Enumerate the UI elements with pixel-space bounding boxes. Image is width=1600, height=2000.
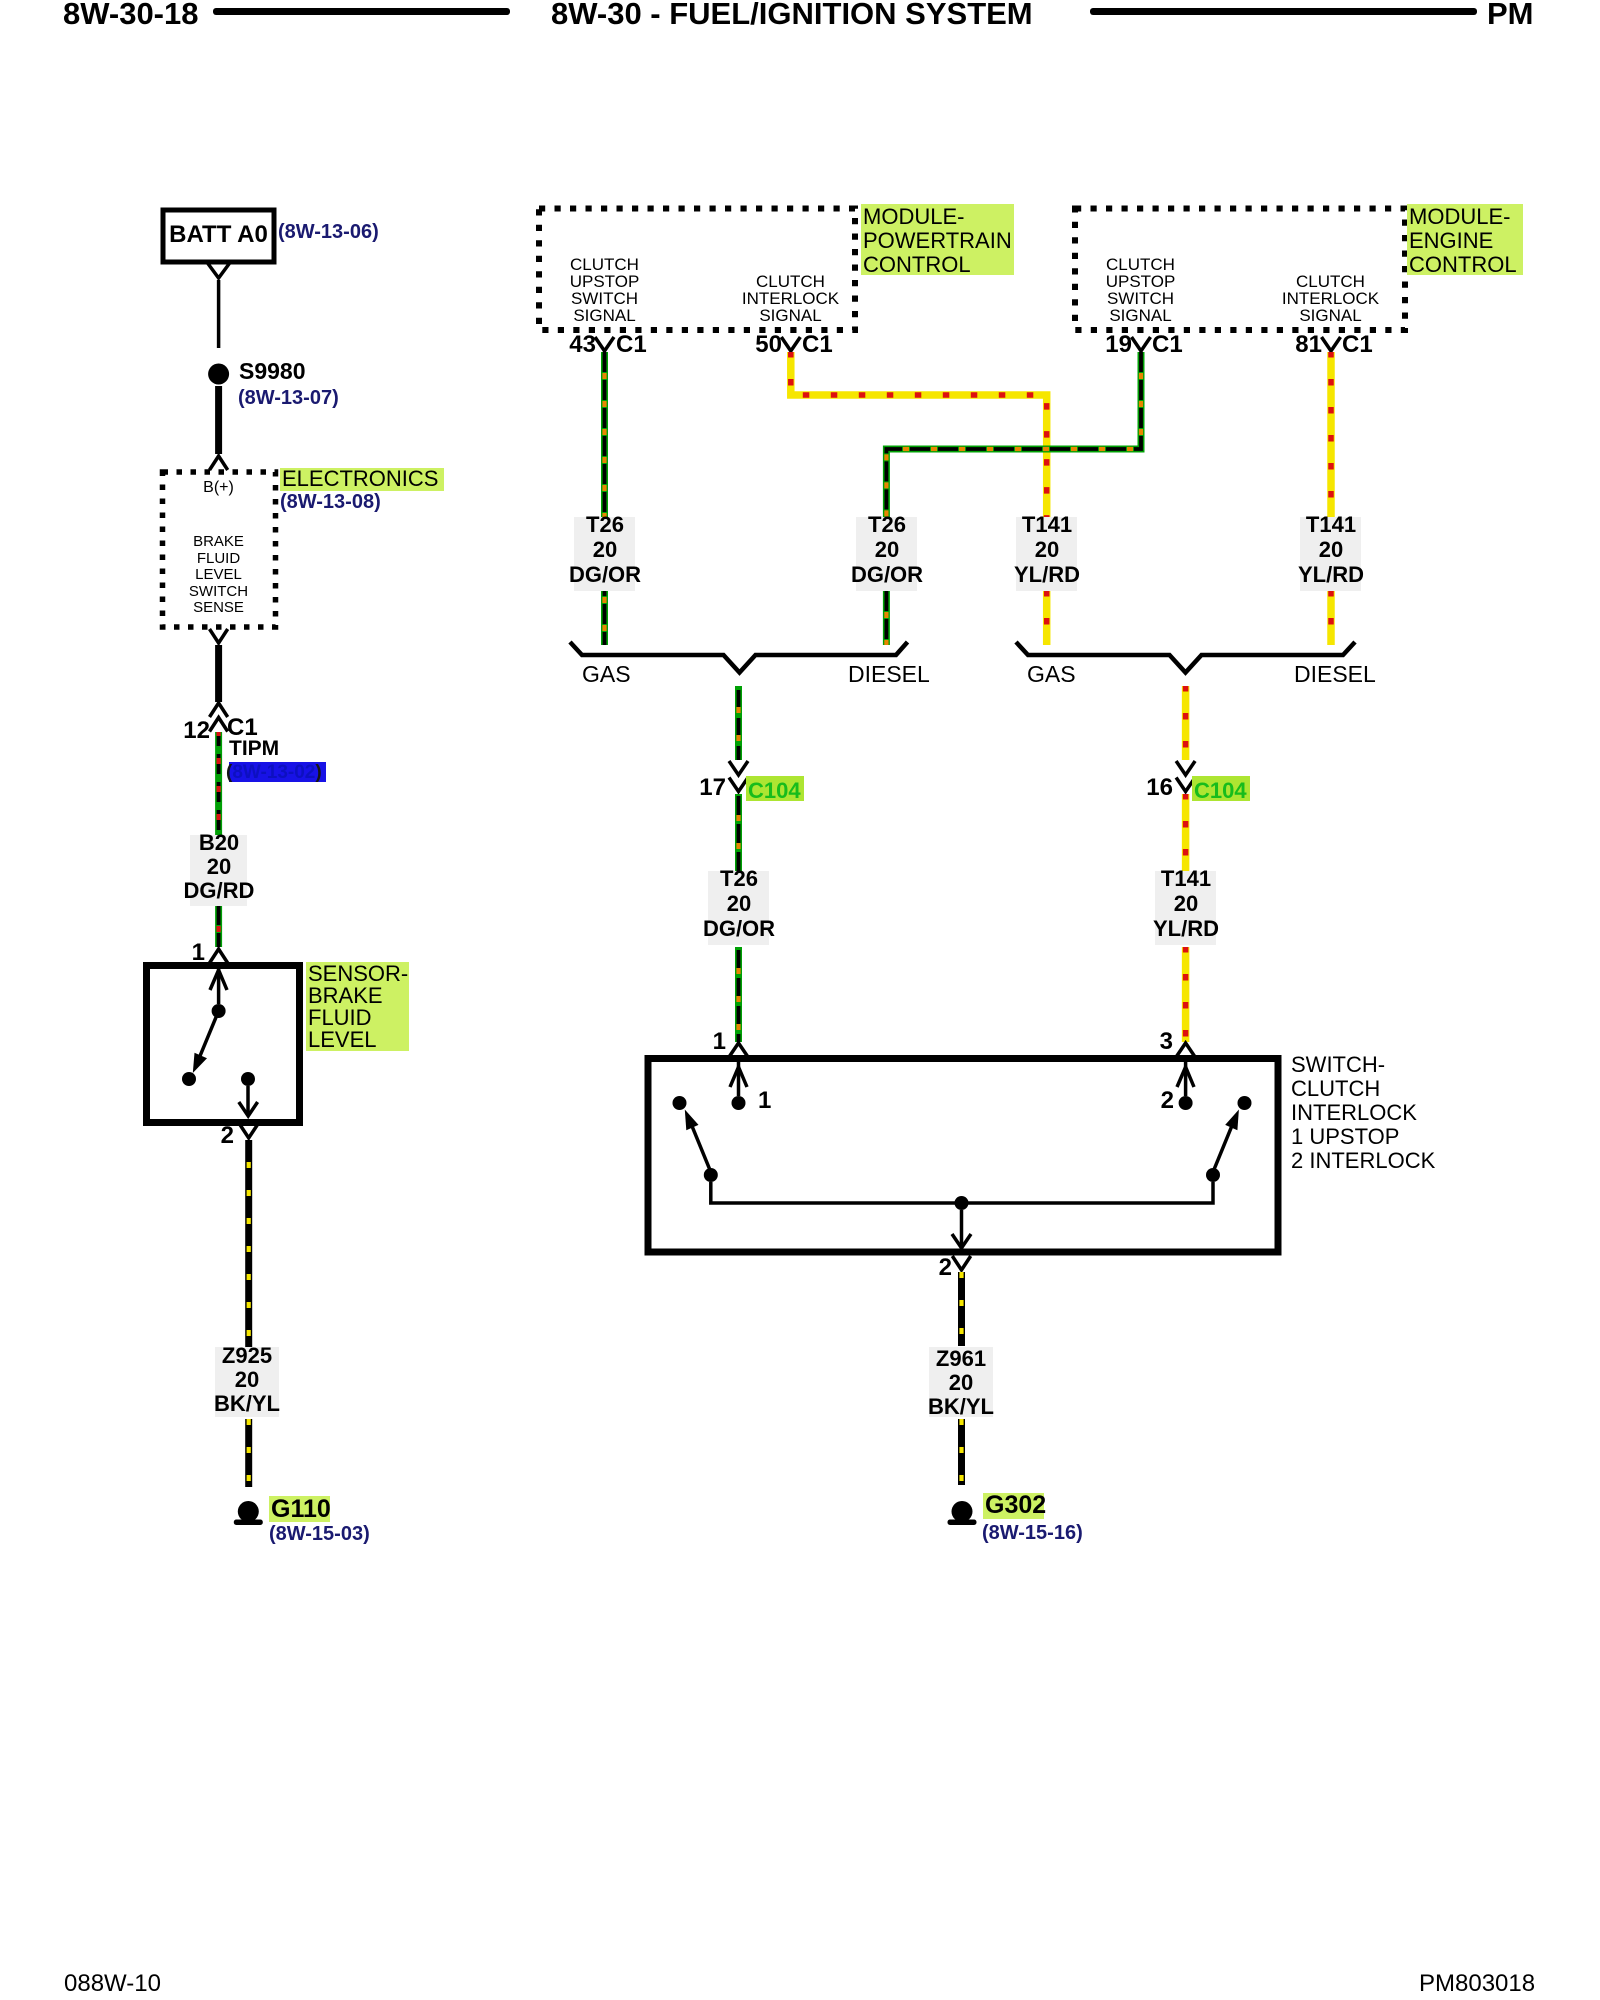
wire T26 20 DG/OR from pin 43	[601, 352, 608, 645]
wire B20 20 DG/RD lower	[215, 905, 222, 947]
wire BATT A0 to splice	[217, 280, 221, 348]
wire label T141 20 YL/RD (mid)	[1155, 871, 1216, 945]
wire B20 20 DG/RD upper	[215, 732, 222, 836]
header rule left	[213, 8, 510, 15]
connector chevron below BATT A0	[208, 263, 230, 278]
sensor switch arm	[198, 1011, 219, 1062]
wire T26 20 DG/OR to switch (mid)	[735, 794, 742, 871]
header rule right	[1090, 8, 1477, 15]
label G110	[269, 1496, 330, 1522]
wire Z925 20 BK/YL upper	[245, 1140, 252, 1347]
ground G302	[952, 1501, 973, 1522]
connector C104 (17)	[746, 776, 804, 801]
connector C1	[227, 716, 258, 741]
connector C104 (16)	[1192, 776, 1250, 801]
in-line connector C104 double chevron (17)	[729, 761, 748, 792]
switch pin 2 lead (right)	[1184, 1062, 1188, 1096]
switch right arm (interlock)	[1238, 1096, 1252, 1110]
label DIESEL (brace 1)	[848, 663, 930, 687]
wire splice to electronics	[215, 386, 222, 454]
sensor box SENSOR-BRAKE FLUID LEVEL	[147, 966, 300, 1123]
pin label B(+)	[162, 480, 275, 497]
label CLUTCH INTERLOCK SIGNAL (PCM)	[725, 273, 856, 324]
reference (8W-13-06)	[278, 222, 379, 243]
pin 81	[1282, 333, 1322, 358]
wire Z961 20 BK/YL upper	[958, 1272, 965, 1346]
label MODULE-POWERTRAIN CONTROL	[861, 204, 1014, 275]
switch common bus	[711, 1182, 1213, 1203]
in-line connector C1 double chevron	[210, 703, 228, 732]
wire T141 20 YL/RD to switch (mid)	[1182, 794, 1190, 871]
connector chevron pin 2 below switch	[952, 1256, 970, 1270]
switch left arm (upstop)	[673, 1096, 687, 1110]
contact 2 label	[1144, 1089, 1174, 1114]
wire label T141 20 YL/RD (gas ecm)	[1016, 517, 1077, 591]
connector chevron pin 3 switch	[1176, 1043, 1195, 1057]
label MODULE-ENGINE CONTROL	[1407, 204, 1523, 275]
connector chevron into ELECTRONICS	[210, 456, 228, 470]
reference (8W-15-16)	[982, 1523, 1083, 1544]
pin 2 below switch	[922, 1256, 952, 1281]
wire Z925 20 BK/YL lower	[245, 1419, 252, 1487]
pin 1 sensor	[175, 941, 205, 966]
wire label T26 20 DG/OR (mid)	[708, 871, 769, 945]
label GAS (brace 1)	[582, 663, 631, 687]
pin 16	[1133, 776, 1173, 801]
brace gas/diesel powertrain	[570, 642, 908, 673]
wire T141 20 YL/RD from pin 81	[1327, 352, 1335, 645]
in-line connector C104 double chevron (16)	[1176, 761, 1195, 792]
wire T141 20 YL/RD to switch (upper)	[1182, 686, 1190, 760]
wire label B20 20 DG/RD	[190, 835, 247, 906]
label TIPM	[229, 738, 279, 760]
pin 1 switch	[696, 1030, 726, 1055]
label BATT A0	[163, 223, 274, 248]
splice S9980	[208, 364, 229, 385]
pin 43	[556, 333, 596, 358]
pin 81 chevron	[1322, 337, 1341, 351]
wire T26 20 DG/OR from pin 19 (crossover)	[886, 352, 1141, 645]
label CLUTCH UPSTOP SWITCH SIGNAL (PCM)	[539, 256, 670, 324]
wire T141 20 YL/RD to switch (lower)	[1182, 947, 1190, 1042]
pin 2 sensor	[204, 1124, 234, 1149]
module MODULE-POWERTRAIN CONTROL dashed box	[539, 209, 855, 331]
pin 19 chevron	[1132, 337, 1151, 351]
label GAS (brace 2)	[1027, 663, 1076, 687]
battery feed box BATT A0	[163, 210, 274, 262]
label CLUTCH INTERLOCK SIGNAL (ECM)	[1265, 273, 1396, 324]
connector chevron pin 2 sensor	[240, 1124, 258, 1138]
label SENSOR-BRAKE FLUID LEVEL	[306, 962, 409, 1051]
reference (8W-13-07)	[238, 388, 339, 409]
label S9980	[239, 360, 306, 384]
module ELECTRONICS dashed box	[163, 472, 276, 627]
wire T26 20 DG/OR to switch (lower)	[735, 947, 742, 1042]
label G302	[983, 1493, 1044, 1519]
wire electronics to C1	[215, 645, 222, 702]
label BRAKE FLUID LEVEL SWITCH SENSE	[162, 534, 275, 617]
pin 50	[742, 333, 782, 358]
switch box SWITCH-CLUTCH INTERLOCK	[648, 1059, 1278, 1253]
switch pin 1 lead	[737, 1062, 741, 1096]
connector chevron pin 1 sensor	[210, 949, 228, 963]
wire label T26 20 DG/OR (gas pcm)	[574, 517, 635, 591]
pin 43 chevron	[595, 337, 614, 351]
wire T26 20 DG/OR to switch (upper)	[735, 686, 742, 760]
wire label T26 20 DG/OR (diesel pcm)	[856, 517, 917, 591]
pin 3 switch	[1143, 1030, 1173, 1055]
pin 12	[151, 719, 210, 744]
wire label T141 20 YL/RD (diesel ecm)	[1300, 517, 1361, 591]
wire label Z961 20 BK/YL	[929, 1347, 993, 1417]
label ELECTRONICS	[280, 468, 444, 491]
pin 19	[1092, 333, 1132, 358]
reference (8W-13-08)	[280, 492, 381, 513]
module MODULE-ENGINE CONTROL dashed box	[1075, 209, 1405, 331]
reference (8W-13-02) blue highlight	[229, 762, 326, 782]
label DIESEL (brace 2)	[1294, 663, 1376, 687]
pin 17	[686, 776, 726, 801]
brace gas/diesel engine	[1016, 642, 1355, 673]
wire label Z925 20 BK/YL	[215, 1347, 279, 1417]
ground G110	[238, 1501, 259, 1522]
label CLUTCH UPSTOP SWITCH SIGNAL (ECM)	[1075, 256, 1206, 324]
wire T141 20 YL/RD from pin 50 (crossover)	[791, 352, 1047, 645]
connector chevron below ELECTRONICS	[210, 629, 228, 643]
sensor pin 2 contact with down arrow	[241, 1072, 255, 1086]
contact 1 label	[758, 1089, 771, 1114]
connector chevron pin 1 switch	[729, 1043, 748, 1057]
pin 50 chevron	[781, 337, 800, 351]
sensor pin 1 lead with up arrow	[217, 969, 221, 1004]
wire Z961 20 BK/YL lower	[958, 1419, 965, 1485]
label SWITCH-CLUTCH INTERLOCK 1 UPSTOP 2 INTERLOCK	[1291, 1053, 1435, 1173]
reference (8W-15-03)	[269, 1524, 370, 1545]
